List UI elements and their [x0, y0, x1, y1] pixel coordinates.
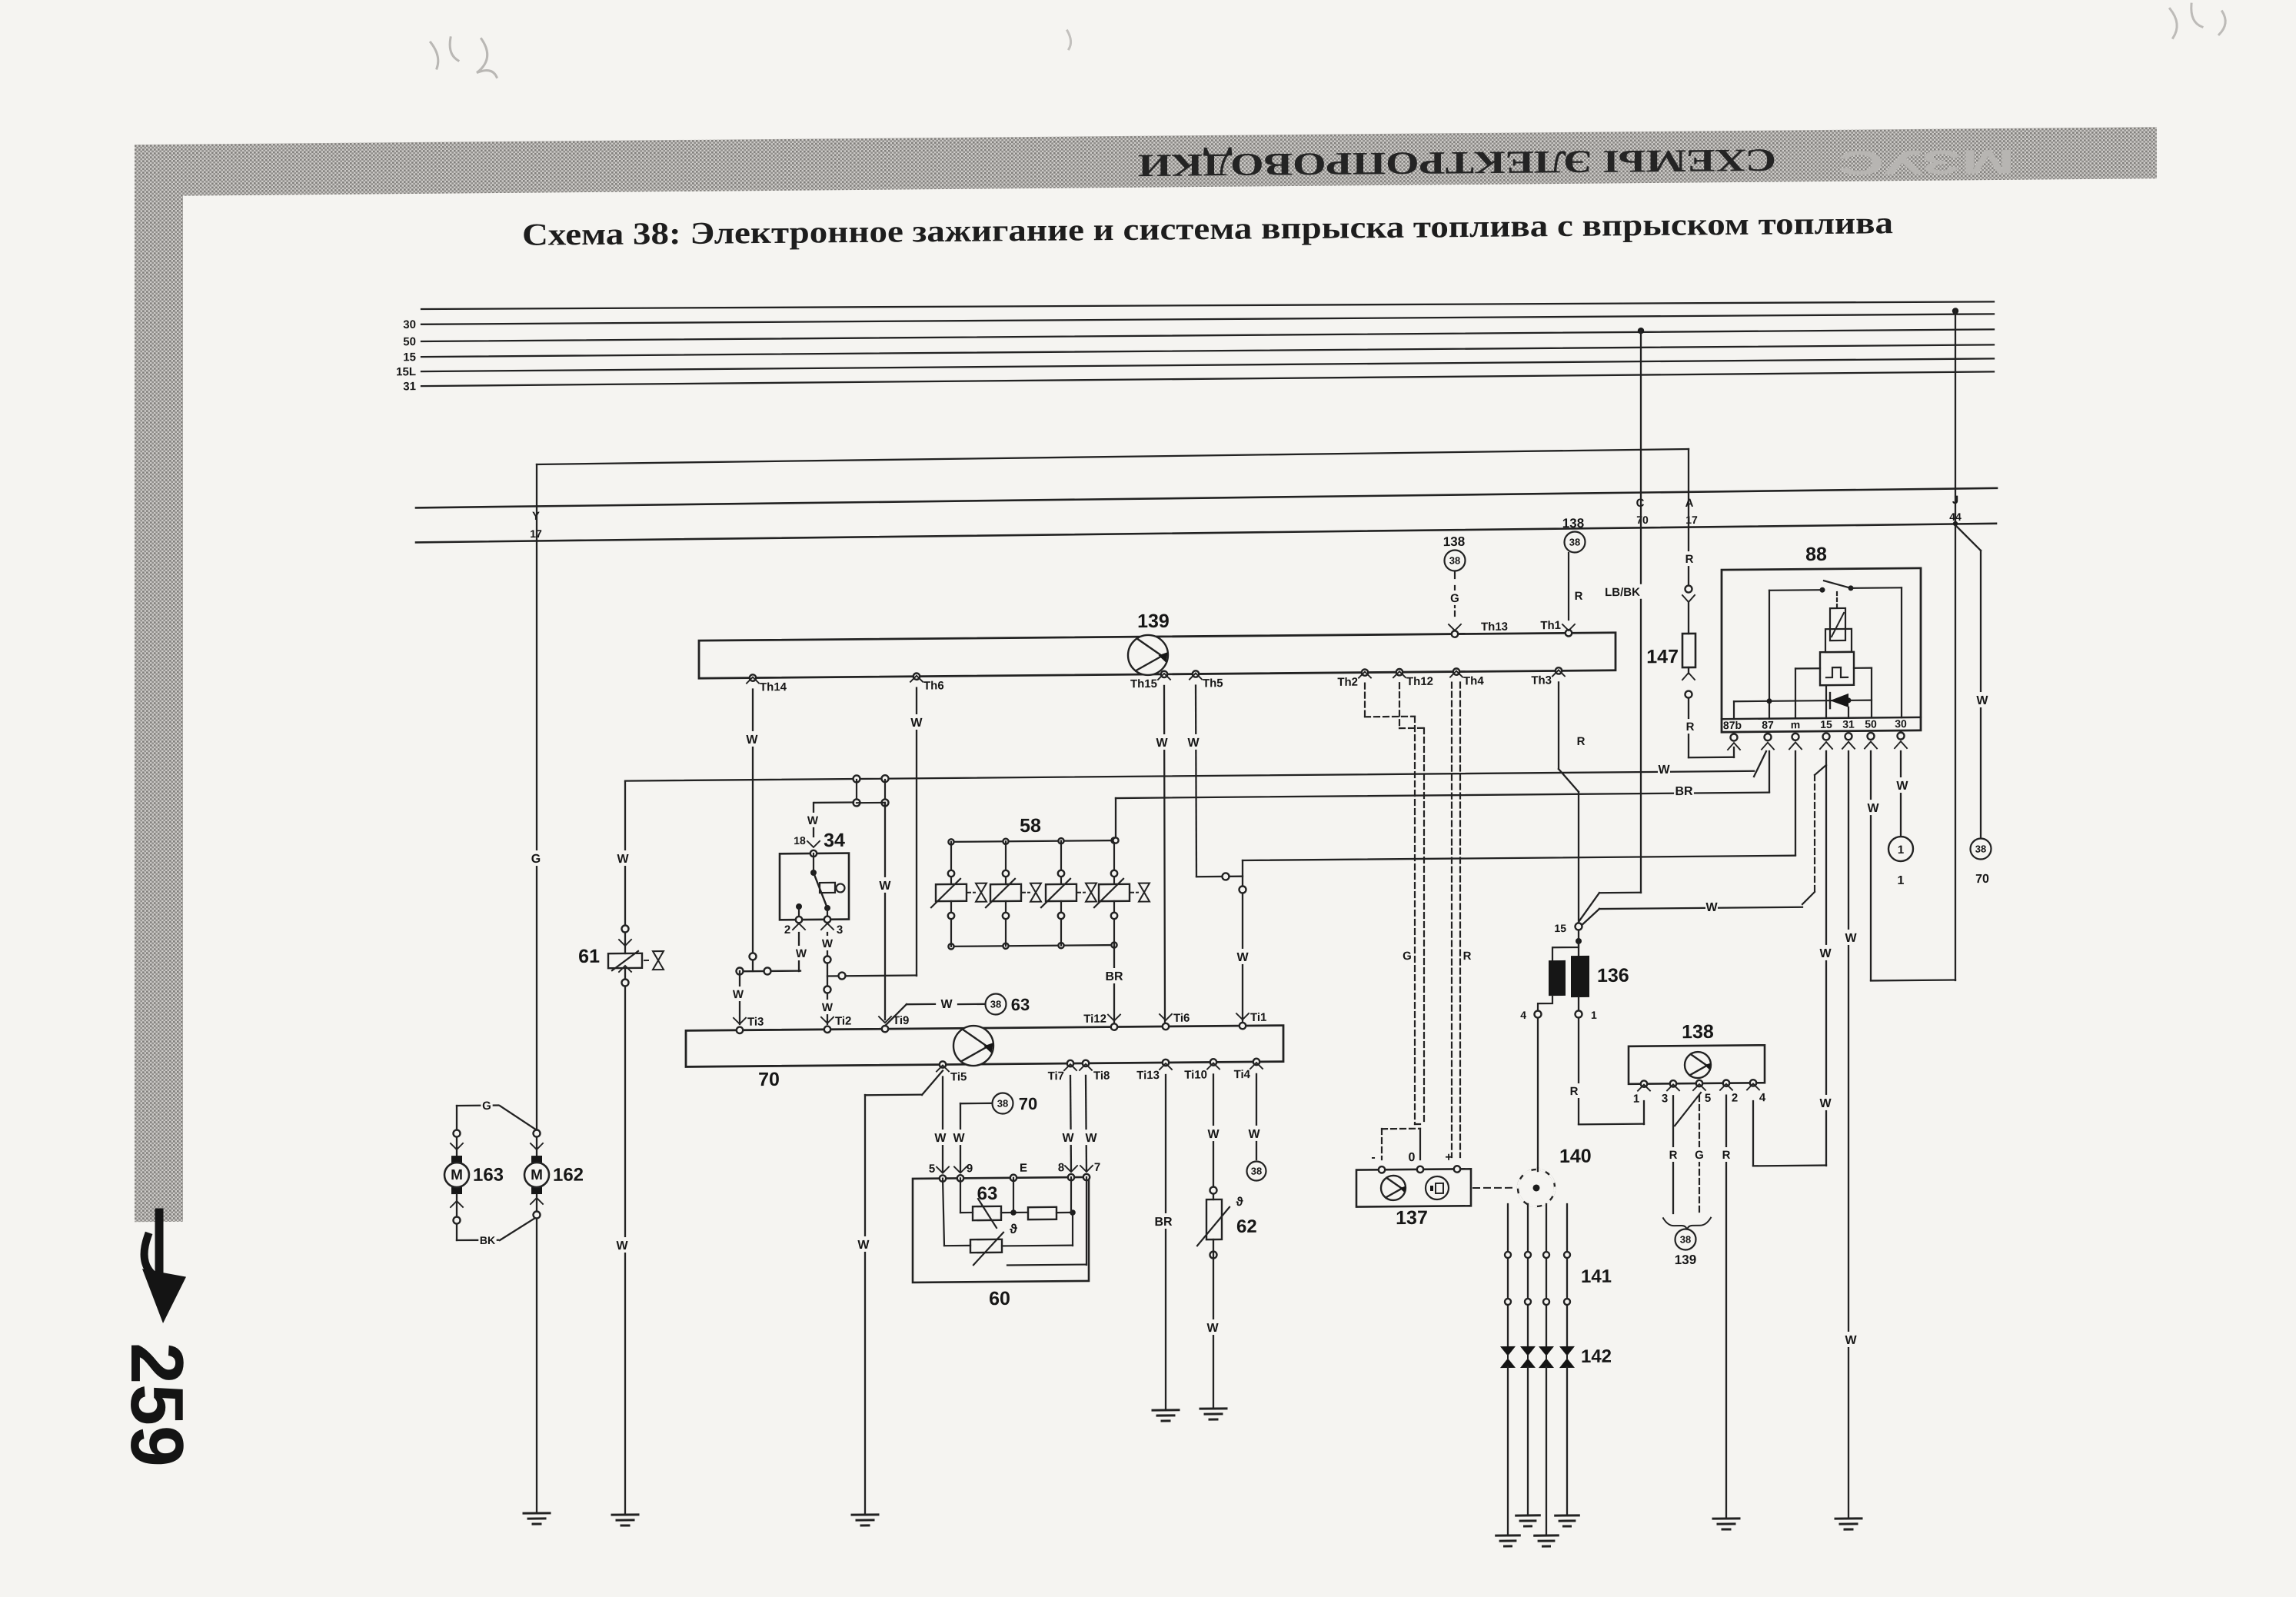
unit 60 pin 5 internal wire — [943, 1179, 944, 1246]
control unit 139 symbol — [1128, 635, 1168, 675]
bus line 31 — [421, 371, 1994, 386]
svg-text:W: W — [857, 1239, 870, 1252]
bus line 15L — [421, 358, 1994, 372]
svg-text:W: W — [746, 734, 758, 747]
wire W from Ti10 to sensor 62 — [1213, 1074, 1214, 1199]
svg-text:Ti1: Ti1 — [1250, 1011, 1266, 1024]
ground spark plug 1 — [1496, 1534, 1520, 1536]
svg-text:W: W — [1845, 932, 1857, 945]
svg-text:2: 2 — [1732, 1092, 1738, 1105]
wire G branch to motor 163 — [457, 1104, 498, 1106]
svg-text:m: m — [1791, 718, 1800, 730]
svg-text:87: 87 — [1762, 719, 1774, 731]
svg-text:Ti8: Ti8 — [1093, 1070, 1110, 1083]
svg-text:+: + — [1445, 1151, 1452, 1164]
unit 138 pin 1 — [1641, 1080, 1647, 1086]
wire W to relay 87 (from solenoid valve 61) — [625, 771, 1754, 781]
wire W from Th5 to Ti1 node — [1196, 686, 1196, 877]
svg-text:70: 70 — [1636, 514, 1649, 526]
unit 60 pin E internal wire — [1013, 1178, 1014, 1213]
svg-text:Ti5: Ti5 — [950, 1070, 967, 1083]
wire W from Th6 — [916, 688, 917, 976]
connector Th4 — [1453, 668, 1459, 674]
svg-text:R: R — [1686, 720, 1695, 734]
svg-text:R: R — [1577, 735, 1586, 748]
wire m/Th5 junction down to Ti1 — [1242, 860, 1243, 1024]
svg-text:E: E — [1020, 1162, 1027, 1175]
svg-text:Ti10: Ti10 — [1184, 1068, 1207, 1081]
svg-text:W: W — [934, 1132, 947, 1145]
control unit 70 box — [686, 1026, 1283, 1067]
page header halftone band — [135, 127, 2157, 196]
svg-text:Ti4: Ti4 — [1234, 1068, 1251, 1081]
wire 50 from relay to bus 30 via J — [1870, 751, 1872, 980]
unit 138 pin 4 — [1750, 1080, 1756, 1086]
svg-text:Th6: Th6 — [923, 679, 944, 692]
svg-text:G: G — [1695, 1149, 1704, 1162]
svg-text:W: W — [940, 998, 953, 1011]
svg-text:50: 50 — [1865, 717, 1877, 730]
ignition lead 2 — [1527, 1204, 1529, 1346]
svg-text:M: M — [531, 1167, 543, 1183]
svg-text:СХЕМЫ ЭЛЕКТРОПРОВОДКИ: СХЕМЫ ЭЛЕКТРОПРОВОДКИ — [1138, 141, 1776, 182]
svg-text:R: R — [1575, 590, 1583, 603]
connector on fuse wire upper — [1685, 585, 1692, 592]
motor M 162 — [534, 1130, 541, 1136]
unit 60 pin 8 — [1068, 1174, 1074, 1180]
svg-text:5: 5 — [1705, 1092, 1711, 1105]
svg-text:4: 4 — [1520, 1009, 1526, 1021]
connector Th1 with sheet ref 138/38 — [1566, 630, 1572, 636]
wire Ti5 branch to ground — [922, 1070, 943, 1095]
wire Ti5 to unit 60 pin 5 — [942, 1076, 943, 1172]
connector Th3 — [1556, 667, 1562, 674]
wire Ti9 to sheet ref 38/63 — [885, 1004, 907, 1026]
wire BR riser from injector rail — [1115, 798, 1116, 840]
wire W from connector to Ti9 — [884, 803, 886, 1020]
ground unit 138 pin 2 wire — [1713, 1517, 1739, 1519]
wire W drop to switch pin 18 — [814, 801, 854, 803]
svg-text:Ti6: Ti6 — [1173, 1012, 1190, 1025]
connector Ti1 (top) — [1240, 1023, 1246, 1029]
wire from switch pin 2 to Ti3 link — [798, 933, 800, 971]
wire W from Ti4 to sheet ref 38 — [1256, 1074, 1257, 1159]
connector Th6 — [913, 673, 920, 679]
wire W from Th14 — [752, 690, 754, 971]
svg-text:1: 1 — [1591, 1009, 1597, 1021]
module 137 pins — [1379, 1166, 1385, 1173]
svg-text:87b: 87b — [1723, 719, 1742, 731]
svg-text:BK: BK — [480, 1234, 495, 1246]
ignition coil 136 windings — [1578, 930, 1579, 956]
svg-text:140: 140 — [1559, 1146, 1592, 1167]
control unit 70 symbol — [953, 1026, 993, 1066]
spark plug 4 — [1559, 1346, 1575, 1368]
spark plug 3 — [1539, 1346, 1554, 1368]
left margin halftone band — [135, 146, 183, 1223]
wire BR to relay 87 (injector supply) — [1116, 793, 1769, 798]
ground Ti13 wire — [1153, 1409, 1179, 1411]
svg-text:Th12: Th12 — [1406, 675, 1433, 688]
unit 60 pin 9 — [957, 1175, 963, 1181]
unit 138 pin 3 — [1670, 1080, 1676, 1086]
svg-text:W: W — [822, 937, 834, 950]
svg-text:W: W — [1845, 1334, 1857, 1347]
spark plug 1 — [1500, 1346, 1516, 1368]
wire BR from injectors to Ti12 — [1113, 945, 1115, 1024]
wire BR from Ti13 to ground — [1165, 1075, 1166, 1410]
sheet connector 1 / 1 — [1888, 837, 1913, 861]
svg-text:15: 15 — [1820, 718, 1832, 730]
svg-text:BR: BR — [1105, 970, 1123, 983]
svg-text:W: W — [733, 988, 744, 1001]
svg-text:50: 50 — [403, 335, 416, 348]
svg-text:Ti13: Ti13 — [1136, 1069, 1160, 1082]
relay pin connectors — [1731, 734, 1738, 740]
svg-text:30: 30 — [403, 318, 416, 331]
unit 138 pin 2 — [1723, 1080, 1729, 1086]
svg-text:38: 38 — [990, 998, 1001, 1010]
unit 60 pin 8 internal wire — [1070, 1177, 1072, 1213]
unit 60 pin 7 — [1083, 1174, 1090, 1180]
svg-text:W: W — [1867, 802, 1879, 815]
dash-dot link 137 to distributor — [1473, 1186, 1516, 1189]
bus line top — [421, 295, 1994, 315]
svg-text:ϑ: ϑ — [1010, 1222, 1017, 1236]
svg-text:138: 138 — [1443, 534, 1465, 549]
wire 30 from relay to connector 1 — [1900, 751, 1902, 835]
bus Y2 (lower rail) — [416, 524, 1996, 543]
svg-text:17: 17 — [1685, 514, 1698, 526]
switch 34 internals — [810, 870, 817, 876]
wire coil 4 into distributor — [1537, 1168, 1539, 1171]
connector Ti6 (top) — [1163, 1023, 1169, 1030]
svg-text:34: 34 — [824, 830, 845, 851]
svg-text:W: W — [1248, 1128, 1260, 1141]
motor M 163 — [451, 1156, 462, 1163]
ground spark plug 4 — [1556, 1514, 1579, 1516]
svg-text:62: 62 — [1236, 1216, 1257, 1237]
fuse 147 — [1682, 634, 1695, 667]
bus line 50 — [421, 328, 1994, 343]
svg-text:136: 136 — [1597, 965, 1629, 986]
svg-text:38: 38 — [1569, 536, 1580, 547]
svg-text:38: 38 — [1449, 554, 1460, 566]
coil terminal 4 — [1538, 996, 1552, 1010]
unit 60 pin 7 internal wire — [1086, 1177, 1087, 1265]
svg-text:M: M — [451, 1167, 463, 1183]
svg-text:139: 139 — [1675, 1253, 1696, 1267]
svg-text:70: 70 — [1975, 873, 1989, 886]
sheet ref 38 below Ti4 — [1247, 1161, 1266, 1180]
connector pair on wire W feed — [854, 775, 860, 782]
connector on fuse wire lower — [1682, 673, 1695, 680]
bus line 30 — [421, 311, 1994, 328]
svg-text:38: 38 — [997, 1097, 1008, 1109]
svg-text:1: 1 — [1898, 874, 1905, 887]
connector Ti13 (bottom) — [1163, 1060, 1169, 1066]
connector Th5 — [1193, 670, 1199, 677]
svg-text:31: 31 — [403, 380, 416, 393]
ground relay 31 wire — [1835, 1517, 1862, 1519]
unit 60 pin 5 — [940, 1175, 946, 1181]
svg-text:138: 138 — [1682, 1021, 1714, 1043]
bus Y1 (node Y/C/A/J upper rail) — [416, 488, 1997, 508]
ignition lead 4 — [1566, 1204, 1568, 1346]
relay pulse unit — [1820, 652, 1854, 685]
wire Ti7 to unit 60 pin 8 — [1070, 1076, 1071, 1171]
injector 2 — [1003, 839, 1008, 844]
svg-text:W: W — [1976, 694, 1988, 707]
margin arrow — [155, 1213, 164, 1279]
relay pin row — [1722, 717, 1921, 719]
svg-text:31: 31 — [1842, 718, 1855, 730]
svg-text:W: W — [1206, 1322, 1219, 1335]
wire W to Ti3 — [739, 971, 740, 1024]
ground for motor 162 wire — [524, 1512, 550, 1514]
svg-text:Th3: Th3 — [1531, 674, 1552, 687]
sensor 63 thermistor in unit 60 — [960, 1178, 961, 1213]
svg-text:139: 139 — [1137, 611, 1170, 632]
dashed wire G from Th2/Th12 to ignition module 137 — [1364, 684, 1366, 717]
connector Th12 — [1396, 669, 1403, 675]
svg-text:W: W — [879, 880, 891, 893]
ground spark plug 3 — [1535, 1534, 1559, 1536]
wire C LB/BK from bus 50 to ignition coil — [1638, 328, 1644, 334]
svg-text:162: 162 — [553, 1164, 584, 1185]
wire R from fuse to relay pin 87b — [1688, 698, 1689, 757]
relay switch contact — [1820, 587, 1825, 593]
svg-text:R: R — [1722, 1149, 1731, 1162]
connector Ti10 (bottom) — [1210, 1059, 1216, 1065]
svg-text:W: W — [1819, 1097, 1832, 1110]
svg-text:5: 5 — [929, 1163, 935, 1176]
control unit 139 box — [699, 633, 1616, 678]
svg-text:38: 38 — [1680, 1233, 1691, 1245]
switch pins 2 and 3 — [796, 917, 802, 923]
wire 15 from relay to coil and unit 138 pin 4 — [1825, 751, 1827, 1166]
dashed wire R from Th4 to ignition module 137 — [1451, 683, 1452, 1157]
wire W to pin 18 — [813, 803, 814, 837]
svg-text:61: 61 — [578, 946, 600, 967]
svg-text:Ti3: Ti3 — [747, 1016, 764, 1029]
injector 1 — [948, 839, 953, 844]
connector Ti8 (bottom) — [1083, 1060, 1089, 1066]
ignition lead 3 — [1546, 1204, 1547, 1346]
svg-text:3: 3 — [1662, 1092, 1668, 1105]
svg-text:Th2: Th2 — [1337, 676, 1358, 689]
spark plug 2 — [1520, 1346, 1536, 1368]
svg-text:ϑ: ϑ — [1236, 1196, 1243, 1209]
unit 60 pin E — [1010, 1175, 1017, 1181]
svg-text:3: 3 — [837, 923, 843, 937]
svg-text:G: G — [482, 1100, 491, 1113]
svg-text:W: W — [1819, 947, 1832, 960]
svg-text:G: G — [531, 853, 541, 866]
svg-text:R: R — [1570, 1085, 1579, 1098]
wire R coil 1 to unit 138 pin 1 — [1578, 1019, 1579, 1124]
wire W through valve 61 — [624, 782, 626, 953]
brace and sheet ref 38/139 — [1663, 1218, 1711, 1231]
svg-text:-: - — [1371, 1151, 1375, 1164]
wire J branch to connector 38/70 — [1953, 521, 1958, 526]
temperature sensor 62 — [1206, 1199, 1222, 1239]
wire 31 from relay to ground — [1848, 751, 1849, 1519]
connector Ti3 (top) — [737, 1027, 743, 1033]
svg-text:15: 15 — [403, 351, 416, 364]
ground spark plug 2 — [1516, 1514, 1540, 1516]
svg-text:W: W — [807, 814, 819, 827]
connector Th13 with sheet ref 138/38 — [1452, 630, 1458, 637]
svg-text:W: W — [1236, 951, 1249, 964]
svg-text:Th4: Th4 — [1463, 674, 1484, 687]
relay internal wiring — [1795, 667, 1820, 669]
injector 4 — [1111, 837, 1116, 843]
svg-text:38: 38 — [1975, 843, 1986, 854]
relay unit 88 box — [1722, 568, 1921, 732]
injector 3 — [1058, 838, 1063, 843]
svg-text:30: 30 — [1895, 717, 1907, 730]
wire Y vertical / G feed to motor 162 — [536, 464, 537, 1156]
svg-text:W: W — [1896, 780, 1908, 793]
svg-text:W: W — [616, 1239, 628, 1253]
svg-text:0: 0 — [1409, 1151, 1416, 1164]
svg-text:2: 2 — [784, 923, 790, 937]
svg-text:38: 38 — [1251, 1165, 1262, 1176]
ground sensor 62 wire — [1200, 1407, 1226, 1409]
svg-text:259: 259 — [115, 1342, 199, 1468]
svg-text:МЗУС: МЗУС — [1838, 142, 2015, 181]
svg-text:R: R — [1669, 1149, 1678, 1162]
connector Ti9 (top) — [882, 1026, 888, 1032]
svg-text:G: G — [1450, 592, 1459, 605]
svg-text:Ti12: Ti12 — [1083, 1013, 1106, 1026]
ignition switch 34 box — [780, 853, 849, 920]
svg-text:G: G — [1403, 950, 1412, 963]
svg-text:58: 58 — [1020, 815, 1041, 837]
svg-text:W: W — [1705, 901, 1718, 914]
svg-text:60: 60 — [989, 1288, 1010, 1309]
wire coil 4 to distributor — [1537, 1019, 1539, 1168]
svg-text:W: W — [1187, 737, 1200, 750]
svg-text:W: W — [617, 853, 629, 866]
svg-text:1: 1 — [1633, 1093, 1639, 1106]
motor 163 lower wire BK — [456, 1194, 458, 1240]
connector Ti2 (top) — [824, 1026, 830, 1033]
svg-text:W: W — [1156, 737, 1168, 750]
svg-text:Th1: Th1 — [1540, 619, 1561, 632]
ground valve 61 wire — [612, 1513, 638, 1515]
relay internal diode — [1734, 700, 1872, 702]
svg-text:Th5: Th5 — [1203, 677, 1223, 690]
svg-text:163: 163 — [473, 1164, 504, 1185]
bus line 15 — [421, 343, 1994, 358]
svg-text:BR: BR — [1675, 785, 1693, 798]
svg-text:Ti7: Ti7 — [1048, 1070, 1064, 1083]
unit 138 symbol — [1685, 1052, 1711, 1078]
control unit 138 box — [1629, 1045, 1765, 1084]
connector Th15 — [1161, 671, 1167, 677]
ignition module 137 box — [1356, 1169, 1471, 1206]
svg-text:W: W — [1658, 764, 1670, 777]
resistor in unit 60 — [1028, 1207, 1056, 1219]
svg-text:137: 137 — [1396, 1207, 1428, 1229]
wire pin 9 to sheet ref 38/70 — [960, 1103, 961, 1172]
svg-text:BR: BR — [1154, 1216, 1173, 1229]
svg-text:4: 4 — [1759, 1091, 1766, 1104]
wire W coil 15 feed — [1599, 907, 1802, 909]
wire J from bus 30 down to starter feed — [1952, 308, 1958, 314]
svg-text:70: 70 — [1019, 1094, 1037, 1113]
svg-text:147: 147 — [1646, 646, 1679, 667]
svg-text:Ti2: Ti2 — [835, 1015, 851, 1028]
svg-text:18: 18 — [794, 834, 806, 847]
svg-text:142: 142 — [1581, 1346, 1612, 1367]
pencil scribbles — [431, 37, 497, 78]
svg-text:9: 9 — [967, 1162, 973, 1175]
wire from sensor 62 to ground — [1210, 1251, 1217, 1258]
svg-text:R: R — [1463, 950, 1472, 963]
svg-text:15L: 15L — [396, 365, 416, 378]
svg-text:W: W — [1062, 1132, 1074, 1145]
svg-text:63: 63 — [1011, 995, 1030, 1014]
wire G unit 138 pin 5 (dashed) — [1675, 1093, 1701, 1126]
wire A down from overpass — [1688, 449, 1689, 584]
wire W from switch pin 3 to Ti2 — [827, 933, 828, 1024]
svg-text:7: 7 — [1094, 1161, 1100, 1174]
wire m from relay to Ti1 — [1795, 751, 1796, 855]
svg-text:Th15: Th15 — [1130, 677, 1157, 690]
connector Th14 — [750, 674, 756, 680]
svg-text:W: W — [796, 947, 807, 960]
coil terminal 1 — [1578, 997, 1579, 1010]
wire R unit 138 pin 2 to ground — [1725, 1096, 1727, 1519]
connector Ti5 (bottom) — [940, 1061, 946, 1067]
svg-text:Th14: Th14 — [760, 680, 787, 694]
module 137 tach symbol — [1426, 1176, 1449, 1199]
svg-text:W: W — [953, 1132, 965, 1145]
connector Th2 — [1362, 669, 1368, 675]
sensor unit 60 box — [913, 1177, 1089, 1283]
ignition lead 1 — [1507, 1204, 1509, 1346]
svg-text:W: W — [910, 717, 923, 730]
ground Ti5 wire — [852, 1513, 878, 1515]
svg-text:88: 88 — [1805, 544, 1827, 565]
svg-text:15: 15 — [1554, 922, 1566, 934]
connector Ti7 (bottom) — [1067, 1060, 1073, 1066]
wire Ti8 to unit 60 pin 7 — [1086, 1076, 1086, 1171]
sheet connector 38 / 70 — [1971, 838, 1992, 859]
svg-text:141: 141 — [1581, 1266, 1612, 1287]
wire R unit 138 pin 3 to ref 139 — [1672, 1096, 1674, 1213]
svg-text:R: R — [1685, 553, 1694, 566]
svg-text:138: 138 — [1562, 516, 1584, 531]
wire W from Th15 to Ti6 — [1164, 686, 1165, 1024]
svg-text:W: W — [822, 1001, 834, 1014]
svg-text:LB/BK: LB/BK — [1605, 586, 1640, 599]
wire R from Th3 to ignition coil — [1558, 682, 1559, 769]
svg-text:Th13: Th13 — [1481, 621, 1508, 634]
connector Ti12 (top) — [1111, 1023, 1117, 1030]
temperature sensor thermistor in unit 60 — [970, 1239, 1002, 1253]
svg-text:8: 8 — [1058, 1161, 1064, 1174]
svg-text:W: W — [1207, 1128, 1220, 1141]
module 137 symbol — [1381, 1176, 1406, 1200]
svg-text:1: 1 — [1898, 843, 1904, 857]
wire 17 link (Y to A overpass) — [537, 449, 1689, 464]
relay driver block — [1830, 608, 1845, 640]
svg-text:W: W — [1085, 1132, 1097, 1145]
